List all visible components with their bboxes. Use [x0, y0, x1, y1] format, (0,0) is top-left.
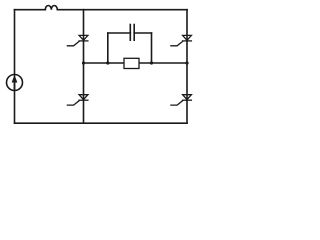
wire capacitor branch right riser	[151, 33, 153, 63]
inductor	[45, 6, 57, 10]
current source	[7, 75, 23, 91]
wire capacitor branch top right	[134, 32, 151, 34]
wire right edge	[186, 10, 188, 124]
wire left edge	[14, 10, 16, 124]
thyristor top-left	[67, 35, 88, 45]
node dot right arm / middle wire	[185, 61, 188, 64]
wire capacitor branch top left	[108, 32, 131, 34]
wire bottom edge	[15, 122, 188, 124]
wire capacitor branch left riser	[107, 33, 109, 63]
wire top edge right of inductor	[57, 9, 187, 11]
thyristor bottom-right	[171, 95, 192, 105]
wire middle horizontal	[84, 62, 188, 64]
wire top edge left of inductor	[15, 9, 46, 11]
capacitor	[130, 25, 134, 41]
node dot left arm / middle wire	[82, 61, 85, 64]
wire left bridge arm	[83, 10, 85, 124]
node dot right riser	[150, 61, 153, 64]
node dot left riser	[106, 61, 109, 64]
resistor (box)	[124, 58, 139, 68]
thyristor top-right	[171, 35, 192, 45]
thyristor bottom-left	[67, 95, 88, 105]
